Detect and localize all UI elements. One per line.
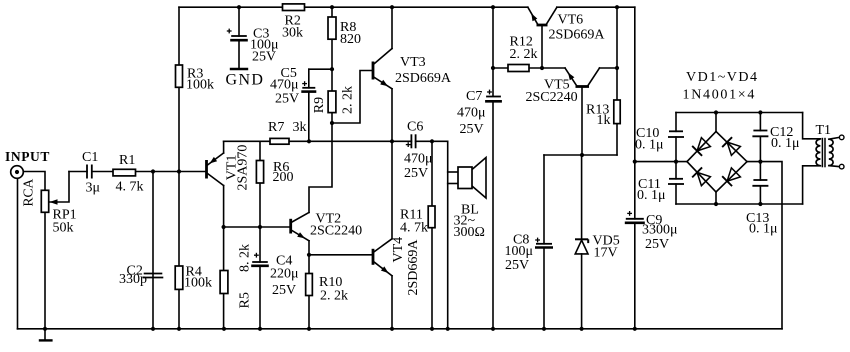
node VT5 collector R13 junction — [615, 66, 619, 70]
wire C3 branch lower — [238, 40, 240, 69]
diode VD4 (lower-right) — [722, 168, 740, 186]
svg-text:VT6: VT6 — [558, 13, 584, 28]
wire bridge edge left-bottom — [687, 162, 716, 192]
wire T1 secondary top feed — [803, 113, 821, 139]
wire bridge section top AC line — [676, 112, 803, 114]
svg-text:1N4001×4: 1N4001×4 — [683, 88, 757, 103]
C9 polarity mark — [627, 211, 632, 216]
transistor VT1 2SA970 (PNP) — [207, 153, 224, 186]
svg-text:R7: R7 — [268, 120, 284, 135]
capacitor C5 (electrolytic) — [301, 88, 316, 92]
svg-text:RCA: RCA — [21, 178, 36, 206]
capacitor C6 — [411, 134, 415, 148]
wire C7 branch upper — [492, 7, 494, 96]
resistor R13 — [614, 100, 620, 124]
node top rail R8 — [330, 5, 334, 9]
wire C1 to R1 to VT1 base — [92, 171, 206, 173]
svg-text:300Ω: 300Ω — [454, 225, 485, 240]
wire R12 line filtered rail to VT5 emitter — [493, 67, 565, 69]
wire top supply rail left section — [179, 6, 528, 8]
svg-text:2. 2k: 2. 2k — [320, 289, 348, 304]
potentiometer RP1 wiper arrow — [50, 199, 58, 204]
resistor R3 — [176, 65, 183, 87]
svg-text:25V: 25V — [645, 237, 669, 252]
node top AC C12 junction — [758, 110, 762, 114]
wire VD5 branch lower — [581, 254, 583, 329]
wire R13 bottom to C8 VD5 node — [544, 154, 617, 156]
wire C3 branch upper — [238, 7, 240, 36]
svg-text:C7: C7 — [466, 89, 482, 104]
wire bridge negative to ground rail — [747, 162, 782, 329]
node rail R4 — [177, 327, 181, 331]
svg-text:0. 1μ: 0. 1μ — [749, 222, 778, 237]
svg-text:2SD669A: 2SD669A — [406, 239, 421, 296]
node top rail VT3 collector — [390, 5, 394, 9]
capacitor C4 (electrolytic) — [251, 262, 269, 266]
wire R13 riser to top rail — [616, 7, 618, 68]
svg-text:30k: 30k — [282, 26, 303, 41]
svg-text:VT4: VT4 — [391, 237, 406, 263]
wire R3 R4 branch — [178, 7, 180, 329]
capacitor C3 (electrolytic) — [230, 36, 248, 40]
svg-text:VD1~VD4: VD1~VD4 — [686, 70, 759, 85]
wire T1 secondary bottom feed — [803, 166, 821, 204]
svg-text:820: 820 — [340, 32, 361, 47]
node rail RP1 — [43, 327, 47, 331]
wire VT1 emitter riser to feedback line — [223, 141, 225, 153]
wire VT2 collector to VT3 base node — [309, 123, 332, 213]
wire C11 lower lead — [675, 184, 677, 204]
resistor R8 — [328, 17, 336, 39]
wire top supply rail right section — [557, 6, 635, 8]
C4 polarity mark — [254, 253, 259, 258]
wire C4 lower lead — [259, 266, 261, 329]
node rail C7 — [491, 327, 495, 331]
node rail R10 — [307, 327, 311, 331]
node R9 bottom junction — [330, 121, 334, 125]
wire bridge section bottom AC line — [676, 203, 803, 205]
node rail VT4 emitter — [390, 327, 394, 331]
svg-text:GND: GND — [226, 72, 265, 89]
wire C5 bottom lead — [308, 92, 310, 142]
node output VT3 VT4 junction — [390, 139, 394, 143]
C7 polarity mark — [487, 90, 492, 95]
transistor VT5 2SC2240 (NPN, inverted) — [565, 68, 600, 87]
svg-text:25V: 25V — [252, 50, 276, 65]
wire bridge edge top-right — [716, 132, 747, 162]
capacitor C1 — [87, 165, 92, 179]
svg-text:25V: 25V — [272, 283, 296, 298]
capacitor C9 (electrolytic) — [625, 219, 645, 223]
svg-text:100μ: 100μ — [505, 244, 534, 259]
svg-text:2. 2k: 2. 2k — [510, 47, 538, 62]
wire C12 lower lead — [759, 136, 761, 161]
svg-text:R9: R9 — [312, 97, 327, 113]
svg-text:2SC2240: 2SC2240 — [526, 90, 578, 105]
node R12 VT6 base junction — [540, 66, 544, 70]
resistor R7 — [270, 138, 289, 144]
potentiometer RP1 body — [41, 190, 48, 212]
node rail C8 — [542, 327, 546, 331]
wire C8 branch lower — [543, 248, 545, 329]
wire output down to speaker and ground — [447, 141, 449, 328]
svg-text:8. 2k: 8. 2k — [238, 244, 253, 272]
svg-text:25V: 25V — [275, 92, 299, 107]
wire VT5 base lead down — [581, 87, 583, 156]
wire bridge edge left-top — [687, 132, 716, 162]
node C5 R8 R9 junction — [330, 67, 334, 71]
svg-text:330p: 330p — [119, 272, 147, 287]
node top rail C3 — [237, 5, 241, 9]
wire R6 C4 branch upper — [259, 141, 261, 262]
svg-text:R5: R5 — [238, 292, 253, 308]
wire C6 right plate to output junction — [416, 140, 448, 142]
svg-text:100k: 100k — [184, 276, 212, 291]
wire VT1 collector down to R5 and ground — [223, 186, 225, 329]
node rail R5 — [222, 327, 226, 331]
node bottom AC C13 junction — [758, 202, 762, 206]
svg-text:220μ: 220μ — [270, 267, 299, 282]
wire C1 left lead — [69, 171, 87, 173]
capacitor C13 — [752, 180, 768, 186]
node R12 C7 rail junction — [491, 66, 495, 70]
wire C10 lower lead — [675, 137, 677, 162]
wire VT2 emitter to VT4 base — [309, 254, 372, 256]
node R6 C4 junction — [258, 225, 262, 229]
resistor R10 — [306, 274, 313, 296]
diode VD1 (upper-left) — [692, 138, 710, 156]
wire VT1 collector to VT2 base — [224, 226, 290, 228]
wire C11 upper lead — [675, 162, 677, 179]
node bridge bottom AC — [714, 202, 718, 206]
capacitor C10 — [668, 131, 684, 137]
svg-text:VT3: VT3 — [400, 55, 426, 70]
wire VT5 collector to R13 top — [600, 67, 618, 69]
transistor VT3 2SD669A (NPN) — [373, 49, 392, 89]
wire C5 top to R8 R9 junction — [309, 68, 332, 70]
wire VD5 branch upper — [581, 155, 583, 239]
wire VT4 emitter to ground rail — [391, 276, 393, 329]
capacitor C7 (electrolytic) — [485, 97, 502, 102]
resistor R2 — [283, 4, 305, 11]
transistor VT4 2SD669A (NPN) — [373, 239, 392, 276]
wire speaker top stub — [448, 171, 458, 173]
node rail speaker — [446, 327, 450, 331]
node rail C4 — [258, 327, 262, 331]
svg-text:2SD669A: 2SD669A — [395, 71, 452, 86]
svg-text:200: 200 — [273, 170, 294, 185]
C5 polarity mark — [302, 81, 307, 86]
wire R8 R9 branch — [331, 7, 333, 123]
svg-text:100k: 100k — [186, 78, 214, 93]
svg-text:4. 7k: 4. 7k — [400, 221, 428, 236]
node feedback C5 junction — [307, 139, 311, 143]
svg-text:C6: C6 — [407, 120, 423, 135]
resistor R1 — [113, 169, 136, 176]
wire C13 lower lead — [759, 186, 761, 204]
wire C5 branch — [308, 69, 310, 88]
svg-text:25V: 25V — [505, 258, 529, 273]
wire R13 branch down — [616, 68, 618, 155]
svg-text:2SC2240: 2SC2240 — [310, 224, 362, 239]
capacitor C11 — [668, 179, 684, 184]
svg-text:17V: 17V — [594, 246, 618, 261]
svg-text:0. 1μ: 0. 1μ — [635, 138, 664, 153]
resistor R6 — [256, 161, 263, 184]
ground symbol at input — [39, 329, 53, 341]
wire feedback line R7 C5 to C6 — [224, 140, 412, 142]
node GND terminal bar under C3 — [231, 68, 247, 70]
wire VT6 base lead — [541, 25, 543, 68]
svg-text:0. 1μ: 0. 1μ — [771, 136, 800, 151]
svg-text:25V: 25V — [460, 122, 484, 137]
node rail R11 — [430, 327, 434, 331]
wire bottom ground rail — [18, 328, 783, 330]
svg-text:25V: 25V — [404, 166, 428, 181]
svg-text:1k: 1k — [597, 113, 611, 128]
wire C8 branch upper — [543, 155, 545, 244]
capacitor C12 — [752, 131, 768, 137]
node VT5 base VD5 junction — [580, 153, 584, 157]
svg-text:3300μ: 3300μ — [642, 223, 678, 238]
wire C13 upper lead — [759, 162, 761, 180]
node input R3 R4 junction — [177, 169, 181, 173]
wire C10 upper lead — [675, 113, 677, 132]
transistor VT2 2SC2240 (NPN) — [291, 213, 309, 241]
node rail VD5 — [580, 327, 584, 331]
node bridge top AC — [714, 110, 718, 114]
svg-text:2SA970: 2SA970 — [235, 145, 250, 191]
svg-text:50k: 50k — [53, 221, 74, 236]
resistor R4 — [175, 266, 183, 289]
resistor R5 — [220, 271, 228, 294]
svg-text:3k: 3k — [293, 120, 307, 135]
svg-text:2SD669A: 2SD669A — [549, 28, 606, 43]
node input C2 junction — [151, 169, 155, 173]
svg-text:3μ: 3μ — [86, 181, 101, 196]
node C10 C11 bridge left vertex — [674, 160, 678, 164]
transformer T1 — [816, 135, 844, 169]
diode VD2 (upper-right) — [722, 137, 740, 155]
wire C12 upper lead — [759, 113, 761, 131]
svg-text:INPUT: INPUT — [5, 149, 50, 164]
RCA input jack J1 — [11, 166, 24, 179]
svg-text:470μ: 470μ — [404, 152, 433, 167]
wire bridge positive output to C9 column — [635, 161, 687, 163]
wire R10 branch — [308, 255, 310, 329]
svg-text:2. 2k: 2. 2k — [341, 86, 356, 114]
capacitor C8 (electrolytic) — [535, 244, 553, 248]
wire R11 branch — [431, 141, 433, 328]
wire RP1 wiper to C1 — [50, 172, 70, 203]
zener diode VD5 17V — [575, 239, 588, 254]
wire R9 bottom to VT3 base — [332, 71, 372, 124]
resistor R9 — [328, 91, 336, 113]
wire RCA shield to ground rail — [17, 178, 19, 329]
wire VT3 collector riser — [391, 7, 393, 48]
node rail C2 — [151, 327, 155, 331]
C3 polarity mark — [227, 29, 232, 34]
speaker BL — [458, 158, 486, 199]
wire C9 branch upper — [634, 7, 636, 219]
node top rail R13 riser — [615, 5, 619, 9]
wire C7 branch lower — [492, 102, 494, 329]
svg-text:470μ: 470μ — [270, 78, 299, 93]
wire VT2 emitter riser — [308, 241, 310, 255]
wire input jack to RP1 top — [23, 172, 45, 191]
svg-text:0. 1μ: 0. 1μ — [637, 188, 666, 203]
resistor R12 — [508, 65, 529, 72]
node top rail C7 — [491, 5, 495, 9]
capacitor C2 — [143, 274, 164, 278]
svg-text:T1: T1 — [816, 123, 832, 138]
svg-text:4. 7k: 4. 7k — [116, 180, 144, 195]
wire VT3 emitter to output to VT4 collector — [391, 89, 393, 239]
svg-text:C1: C1 — [82, 150, 98, 165]
node C12 C13 bridge right vertex — [758, 160, 762, 164]
wire bridge bottom vertex stub — [715, 192, 717, 204]
C6 polarity mark — [406, 142, 411, 147]
wire C9 branch lower — [634, 223, 636, 329]
node rail C9 — [633, 327, 637, 331]
C8 polarity mark — [535, 238, 540, 243]
node VT1 collector VT2 base junction — [222, 225, 226, 229]
wire C2 branch — [152, 172, 154, 329]
wire bridge edge bottom-right — [716, 162, 747, 192]
node VT2 emitter R10 VT4 base junction — [307, 253, 311, 257]
resistor R11 — [428, 206, 435, 228]
svg-text:470μ: 470μ — [457, 106, 486, 121]
node output C6 R11 junction — [430, 139, 434, 143]
wire speaker bottom stub — [448, 183, 458, 185]
svg-text:R1: R1 — [119, 153, 135, 168]
node C9 bridge junction — [633, 160, 637, 164]
wire RP1 bottom to ground rail — [44, 212, 46, 328]
transistor VT6 2SD669A (NPN, inverted, series pass) — [528, 7, 557, 25]
diode VD3 (lower-left) — [692, 167, 710, 185]
wire bridge top vertex stub — [715, 113, 717, 132]
